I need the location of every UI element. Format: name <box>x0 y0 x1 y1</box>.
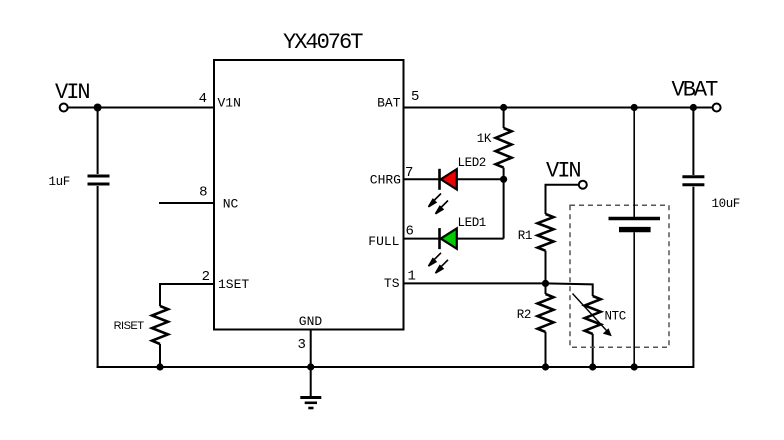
resistor R1 <box>538 214 554 251</box>
wire battery bottom <box>633 232 635 367</box>
junction TS node <box>542 280 549 287</box>
svg-text:1SET: 1SET <box>218 277 249 292</box>
wire RISET to rail <box>159 344 161 367</box>
junction BAT/10uF <box>690 104 697 111</box>
resistor R2 <box>538 294 554 332</box>
junction battery/rail <box>631 363 638 370</box>
LED2 diode <box>440 169 457 190</box>
svg-text:FULL: FULL <box>368 234 399 249</box>
svg-text:4: 4 <box>199 91 207 107</box>
node VIN terminal <box>60 104 68 112</box>
LED2 light arrows <box>429 194 449 214</box>
junction RISET/rail <box>156 363 163 370</box>
wire 1K top <box>503 108 505 129</box>
capacitor C2 10uF <box>682 177 704 185</box>
svg-text:1uF: 1uF <box>49 175 70 189</box>
junction R2/rail <box>542 363 549 370</box>
node VBAT terminal <box>713 104 721 112</box>
wire 10uF to rail <box>692 187 694 368</box>
battery cell plates <box>609 219 661 230</box>
svg-text:R2: R2 <box>517 308 531 322</box>
junction GND/rail <box>307 363 314 370</box>
svg-text:6: 6 <box>406 224 414 240</box>
svg-text:VIN: VIN <box>55 80 89 105</box>
wire pin6 to LED1 <box>404 238 440 240</box>
svg-text:LED1: LED1 <box>458 216 486 230</box>
svg-text:LED2: LED2 <box>458 156 486 170</box>
wire battery top <box>633 108 635 218</box>
svg-text:NTC: NTC <box>605 310 626 324</box>
resistor NTC <box>585 296 601 334</box>
wire C1 to bottom rail <box>97 186 99 368</box>
svg-text:R1: R1 <box>518 229 532 243</box>
resistor R 1K <box>496 128 512 168</box>
wire 10uF top <box>692 108 694 176</box>
wire TS to R1/R2 node <box>404 282 546 284</box>
svg-text:BAT: BAT <box>377 96 401 111</box>
NTC arrow <box>573 294 612 337</box>
wire BAT rail <box>404 107 714 109</box>
wire NC stub pin 8 <box>159 202 214 204</box>
wire LED2 to junction <box>457 178 504 180</box>
LED1 light arrows <box>429 253 449 273</box>
svg-text:YX4076T: YX4076T <box>283 30 363 55</box>
wire NTC to rail <box>592 334 594 367</box>
svg-text:5: 5 <box>411 89 419 105</box>
wire TS node to R2 <box>545 283 547 294</box>
svg-text:3: 3 <box>298 337 306 353</box>
wire TS node to NTC <box>546 283 593 296</box>
svg-text:TS: TS <box>384 276 400 291</box>
svg-text:1K: 1K <box>477 132 492 146</box>
wire GND pin down <box>310 330 312 397</box>
LED1 diode <box>440 228 457 249</box>
wire R1 to TS node <box>545 251 547 284</box>
svg-text:GND: GND <box>299 314 323 329</box>
wire R2 to rail <box>545 332 547 367</box>
svg-text:VIN: VIN <box>546 159 580 184</box>
node VIN2 terminal <box>579 181 587 189</box>
svg-text:2: 2 <box>202 269 210 285</box>
wire pin7 to LED2 <box>404 178 440 180</box>
wire pin 2 to RISET <box>160 284 214 306</box>
bottom rail wire <box>97 366 694 368</box>
wire 1K bottom <box>503 168 505 180</box>
junction VIN/C1 <box>94 104 102 112</box>
junction BAT/battery <box>631 104 638 111</box>
resistor RISET <box>152 306 168 344</box>
junction BAT/1K <box>500 104 507 111</box>
wire junction down to C1 <box>97 108 99 175</box>
wire VIN to pin 4 <box>68 107 214 109</box>
svg-text:RISET: RISET <box>114 320 145 332</box>
svg-text:V1N: V1N <box>218 96 241 111</box>
op-amp U1 IC body YX4076T <box>214 60 404 330</box>
svg-text:10uF: 10uF <box>712 197 740 211</box>
svg-text:CHRG: CHRG <box>370 173 401 188</box>
svg-text:VBAT: VBAT <box>672 78 719 103</box>
svg-text:1: 1 <box>408 269 416 285</box>
junction 1K/LED2 <box>500 176 507 183</box>
battery pack dashed box <box>570 205 669 347</box>
svg-text:8: 8 <box>199 185 207 201</box>
capacitor C1 1uF <box>88 176 110 184</box>
ground <box>300 398 321 409</box>
junction NTC/rail <box>589 363 596 370</box>
svg-text:NC: NC <box>223 197 239 212</box>
wire VIN2 to R1 <box>546 185 579 214</box>
wire junction down to LED1 level <box>503 179 505 238</box>
wire LED1 to 1K branch <box>457 238 504 240</box>
